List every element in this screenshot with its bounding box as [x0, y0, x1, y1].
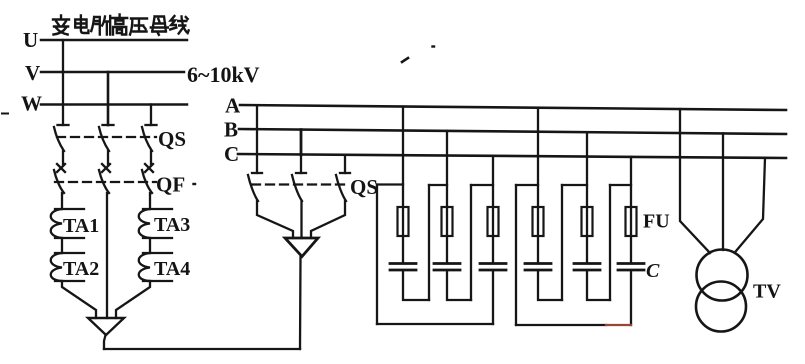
fuse g2 f1 — [533, 207, 544, 236]
title 变电所高压母线 (substation HV busbar) — [53, 15, 189, 35]
busbar A — [240, 105, 786, 110]
capacitor g1 c1 — [390, 264, 416, 271]
wire cap3 bottom to rail g1 — [492, 271, 494, 324]
fuse g1 f1 — [398, 207, 409, 236]
wire pole3 QF-TA3 — [149, 193, 151, 209]
loop wire g2 l2 — [561, 185, 563, 300]
disconnector QS pole 3 contact — [146, 124, 157, 126]
wire TV tap B — [722, 133, 724, 250]
disconnector QS feeder pole 2 contact — [296, 172, 306, 174]
capacitor group 1 : branch 2 drop from B — [446, 131, 448, 262]
wire feeder tap C — [344, 155, 346, 173]
char bian — [53, 16, 69, 35]
disconnector QS feeder pole 2 blade — [292, 175, 302, 201]
node wire g1 n3 — [471, 184, 493, 186]
QF linkage dashed — [55, 181, 156, 183]
capacitor g1 c3 — [480, 264, 506, 271]
wire cap2 bottom to loop3 g2 — [587, 271, 610, 300]
capacitor g2 c2 — [574, 264, 600, 271]
breaker QF pole 1 x-contact — [57, 164, 65, 172]
capacitor group 2 : branch 2 drop from B — [586, 132, 588, 262]
svg-text:TA3: TA3 — [154, 214, 190, 236]
svg-text:W: W — [21, 92, 42, 116]
CT TA4 — [139, 253, 172, 281]
bottom rail g1 — [377, 323, 493, 325]
wire feeder tap A — [256, 105, 258, 173]
char gao — [112, 15, 127, 35]
char suo — [91, 16, 110, 35]
capacitor group 2 : branch 3 drop from C — [630, 157, 632, 262]
svg-text:V: V — [25, 61, 40, 85]
svg-text:QS: QS — [158, 127, 186, 151]
svg-text:QS: QS — [350, 175, 378, 199]
wire feeder pole1 to junction — [257, 201, 293, 238]
wire pole1 QF-TA1 — [61, 193, 63, 209]
node wire g2 n2 — [562, 184, 587, 186]
disconnector QS feeder pole 3 blade — [336, 175, 346, 201]
wire cap2 bottom to loop3 g1 — [447, 271, 471, 300]
busbar B — [239, 129, 786, 134]
wire TV tap C — [736, 158, 765, 251]
wire pole2 down — [106, 193, 108, 318]
wire pole1 QS-QF — [62, 151, 64, 164]
wire cap1 bottom to loop2 g2 — [538, 271, 562, 300]
capacitor group 1 : branch 1 drop from A — [402, 107, 404, 263]
svg-text:TA4: TA4 — [154, 258, 190, 280]
svg-text:QF: QF — [156, 173, 185, 197]
capacitor g2 c3 C — [618, 264, 644, 271]
disconnector QS feeder pole 1 blade — [248, 175, 258, 201]
fuse g2 f2 — [582, 207, 593, 236]
wire cap1 bottom to loop2 g1 — [403, 271, 429, 300]
voltage transformer TV winding 2 — [696, 282, 746, 332]
char dian — [75, 16, 88, 34]
breaker QF pole 2 x-contact — [102, 164, 110, 172]
wire bottom rail — [104, 348, 300, 350]
wire cap3 bottom to rail g2 — [630, 271, 632, 325]
breaker QF pole 1 blade — [54, 170, 64, 193]
capacitor g2 c1 — [525, 264, 551, 271]
svg-text:C: C — [224, 142, 239, 166]
disconnector QS feeder pole 1 contact — [252, 172, 262, 174]
char mu — [151, 17, 168, 35]
fuse g1 f3 — [488, 207, 499, 236]
fuse g1 f2 — [442, 207, 453, 236]
disconnector QS pole 2 blade — [99, 127, 109, 151]
disconnector QS pole 2 contact — [103, 124, 114, 126]
loop wire g1 l1 — [376, 185, 378, 325]
wire tap V phase — [107, 72, 110, 125]
busbar U — [41, 39, 187, 42]
wire TA3-TA4 — [149, 238, 151, 253]
breaker QF pole 2 blade — [99, 170, 109, 193]
char ya — [130, 19, 147, 35]
loop wire g2 l3 — [609, 185, 611, 300]
cable termination triangle feeder — [285, 238, 318, 257]
capacitor g1 c2 — [434, 264, 460, 271]
wire pole3 QS-QF — [150, 151, 152, 164]
busbar C — [238, 154, 786, 158]
wire pole3 to junction — [116, 281, 150, 318]
QS linkage dashed — [57, 136, 156, 138]
wire pole2 QS-QF — [107, 151, 109, 164]
node wire g1 n2 — [429, 184, 447, 186]
wire feeder tap B — [300, 130, 303, 155]
capacitor group 2 : branch 1 drop from A — [537, 108, 539, 262]
wire TA1-TA2 — [61, 238, 63, 253]
wire riser to feeder apex — [299, 257, 302, 349]
busbar W — [41, 103, 187, 106]
disconnector QS feeder pole 3 contact — [340, 172, 350, 174]
char xian — [170, 16, 188, 34]
svg-text:U: U — [23, 28, 38, 52]
capacitor group 1 : branch 3 drop from C — [492, 156, 494, 262]
node wire g1 n1 — [377, 183, 403, 185]
CT TA3 — [139, 209, 172, 238]
bottom rail g2 — [516, 324, 606, 326]
svg-text:TV: TV — [753, 281, 781, 303]
disconnector QS pole 3 blade — [142, 127, 152, 151]
wire left apex down — [104, 335, 106, 349]
busbar V — [41, 71, 184, 74]
svg-text:6~10kV: 6~10kV — [187, 62, 260, 87]
disconnector QS pole 1 blade — [54, 127, 64, 151]
svg-text:FU: FU — [643, 211, 670, 233]
CT TA1 — [51, 209, 84, 238]
disconnector QS pole 1 contact — [58, 124, 69, 126]
breaker QF pole 3 x-contact — [145, 164, 153, 172]
svg-text:A: A — [225, 94, 241, 118]
svg-text:C: C — [646, 260, 660, 282]
loop wire g1 l3 — [470, 185, 472, 300]
speck marks — [2, 113, 8, 115]
wire pole1 to junction — [62, 281, 96, 318]
svg-text:B: B — [224, 118, 238, 142]
cable termination triangle left — [88, 318, 124, 335]
CT TA2 — [51, 253, 84, 281]
wire TV tap A — [680, 109, 710, 253]
loop wire g2 l1 — [515, 185, 517, 325]
wire feeder pole2 to junction — [300, 201, 302, 238]
bottom rail g2 red segment — [606, 324, 631, 326]
QS feeder linkage dashed — [252, 183, 348, 185]
svg-text:TA2: TA2 — [63, 258, 99, 280]
node wire g2 n1 — [516, 184, 538, 186]
loop wire g1 l2 — [428, 185, 430, 300]
voltage transformer TV winding 1 — [697, 250, 748, 301]
fuse g2 f3 FU — [626, 207, 637, 236]
wire feeder pole3 to junction — [311, 201, 345, 238]
node wire g2 n3 — [610, 184, 631, 186]
wire tap W phase — [150, 105, 152, 126]
breaker QF pole 3 blade — [142, 170, 152, 193]
wire tap U phase — [62, 40, 64, 125]
svg-text:TA1: TA1 — [63, 215, 99, 237]
